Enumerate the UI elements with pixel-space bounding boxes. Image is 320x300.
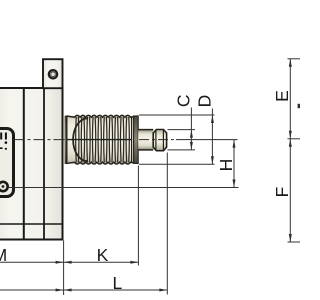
svg-text:K: K: [97, 245, 109, 265]
svg-text:E: E: [272, 90, 292, 102]
svg-text:L: L: [113, 273, 123, 293]
svg-text:C: C: [174, 94, 194, 107]
svg-text:H: H: [216, 159, 236, 172]
svg-text:D: D: [194, 95, 214, 108]
svg-text:M: M: [0, 245, 7, 265]
svg-text:F: F: [272, 187, 292, 198]
